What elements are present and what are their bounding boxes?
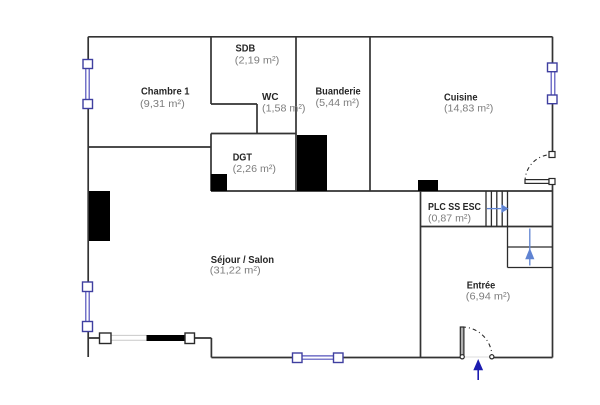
window [100,333,195,344]
wire [211,103,257,105]
window [293,353,344,363]
svg-text:Entrée: Entrée [467,280,496,291]
svg-text:(6,94 m²): (6,94 m²) [466,292,511,303]
door [525,152,555,185]
wire [211,133,296,135]
svg-text:(2,19 m²): (2,19 m²) [235,55,279,66]
wire [369,37,371,191]
svg-text:(1,58 m²): (1,58 m²) [262,103,306,114]
svg-text:(2,26 m²): (2,26 m²) [233,164,276,175]
wire [420,191,422,358]
wire [88,338,211,358]
svg-text:PLC SS ESC: PLC SS ESC [428,202,481,213]
wire [421,226,553,228]
wire [552,37,554,358]
svg-text:(9,31 m²): (9,31 m²) [140,99,185,110]
svg-text:Séjour / Salon: Séjour / Salon [211,255,274,266]
node Sejour / Salon [210,255,274,276]
svg-text:(0,87 m²): (0,87 m²) [428,214,471,225]
wire [88,36,552,38]
wire [211,357,552,359]
wall [418,180,438,191]
svg-text:(14,83 m²): (14,83 m²) [444,104,493,115]
node WC [262,92,306,114]
wall [89,191,110,241]
arrow [487,204,509,213]
svg-text:SDB: SDB [236,43,256,54]
wire [87,37,89,357]
wire [88,146,211,148]
wire [256,104,258,134]
svg-text:(5,44 m²): (5,44 m²) [316,98,360,109]
wire [210,134,212,192]
wire [211,190,553,192]
arrow [525,229,534,266]
window [548,63,558,104]
node Chambre 1 [140,87,190,110]
wall [297,135,327,191]
node Buanderie [316,87,362,110]
door [460,327,494,359]
svg-text:WC: WC [262,92,279,103]
svg-text:DGT: DGT [233,153,252,164]
wire [295,37,297,191]
arrow [473,359,483,380]
wall [211,174,227,191]
window [83,60,93,109]
svg-text:(31,22 m²): (31,22 m²) [210,265,261,276]
node Entree [466,280,511,302]
window [83,282,93,332]
node SDB [235,43,279,66]
node Cuisine [444,92,493,114]
wire [210,37,212,104]
svg-text:Buanderie: Buanderie [316,87,362,98]
node PLC SS ESC [428,202,481,224]
stairs [486,191,553,268]
node DGT [233,153,276,175]
svg-text:Chambre 1: Chambre 1 [141,87,190,98]
svg-text:Cuisine: Cuisine [444,92,478,103]
